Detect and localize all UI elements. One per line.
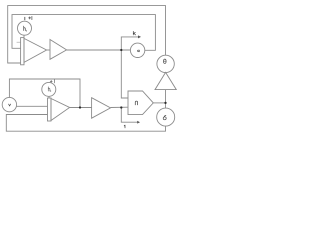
source circle v xyxy=(2,97,16,111)
arrowhead 1 xyxy=(137,121,140,124)
label cap glyph inside block N xyxy=(135,101,137,105)
annotation tick above h1 xyxy=(24,17,26,20)
wire outer feedback loop from theta to top mux xyxy=(8,6,166,63)
wire annotation arrow k xyxy=(121,37,138,50)
gain triangle G3 xyxy=(51,99,70,121)
wire stub into top mux input 1 xyxy=(17,41,21,43)
wire triangle base down to delta xyxy=(165,90,167,109)
wire delta feedback loop along bottom into bottom mux xyxy=(6,115,165,132)
wire top signal from gain G2 to summer a xyxy=(67,49,131,51)
label h1 inside circle h1 xyxy=(24,26,26,30)
bottom mux bar M2 xyxy=(48,98,52,121)
wire bottom signal gain G3 to gain G4 xyxy=(70,107,92,109)
top mux bar M1 xyxy=(21,38,24,65)
wire from oscillator h1 down into top mux xyxy=(23,35,25,37)
circle theta xyxy=(157,55,174,72)
node J2 junction dot xyxy=(79,106,81,108)
label v inside source xyxy=(9,104,11,106)
label h2 inside circle h2 xyxy=(48,87,51,92)
label 1 on arrow xyxy=(123,125,126,128)
wire from node J1 down to block N upper input xyxy=(121,50,128,98)
gain triangle G4 xyxy=(92,98,111,119)
gain triangle up G5 xyxy=(155,72,176,89)
label a inside summer xyxy=(138,50,140,52)
block N pentagon xyxy=(128,91,153,115)
label delta inside circle xyxy=(163,117,166,120)
oscillator circle h2 xyxy=(42,82,56,96)
label +1 above h2 xyxy=(50,80,54,83)
oscillator circle h1 xyxy=(18,21,32,35)
node J1 junction dot xyxy=(120,49,122,51)
label +1 above h1 xyxy=(29,16,32,19)
arrowhead k xyxy=(138,35,141,38)
wire from block N output to node J4 xyxy=(153,102,165,104)
label theta inside circle xyxy=(164,59,167,63)
wire annotation arrow 1 xyxy=(121,108,137,123)
circle delta xyxy=(157,108,175,126)
wire bottom box feedback loop to source v xyxy=(9,79,80,108)
wire bottom signal gain G4 to block N lower input xyxy=(111,106,129,108)
wire between top gain G1 and gain G2 xyxy=(47,49,50,51)
gain triangle G2 xyxy=(50,40,67,60)
wire from oscillator h2 down into bottom mux xyxy=(48,96,50,98)
wire from source v to bottom mux xyxy=(17,105,48,107)
node J4 junction dot xyxy=(164,102,166,104)
label k on arrow xyxy=(133,31,135,35)
summer circle a xyxy=(130,43,144,57)
wire inner feedback loop from summer a to top mux xyxy=(12,15,155,51)
wire right column theta to triangle xyxy=(165,71,167,73)
gain triangle G1 xyxy=(24,38,47,62)
node J3 junction dot xyxy=(120,106,122,108)
